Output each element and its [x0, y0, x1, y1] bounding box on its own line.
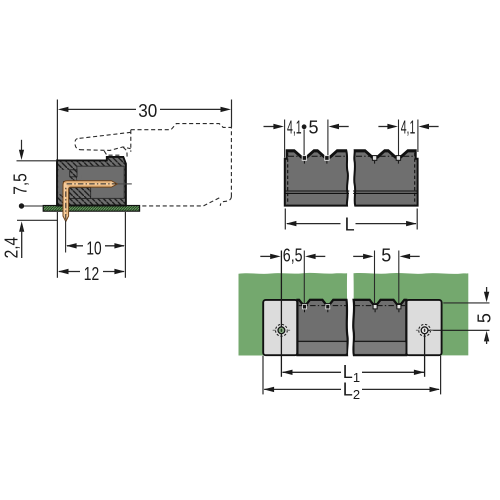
svg-text:5: 5 — [381, 245, 391, 265]
svg-text:4,1: 4,1 — [287, 118, 302, 138]
svg-text:2,4: 2,4 — [2, 237, 22, 259]
svg-text:30: 30 — [138, 101, 157, 121]
svg-text:L: L — [345, 215, 355, 235]
svg-text:4,1: 4,1 — [401, 118, 416, 138]
svg-text:6,5: 6,5 — [283, 245, 303, 265]
svg-text:5: 5 — [475, 313, 495, 323]
svg-text:12: 12 — [84, 264, 99, 284]
svg-text:10: 10 — [86, 238, 101, 258]
svg-text:7,5: 7,5 — [10, 173, 30, 195]
svg-text:5: 5 — [308, 118, 318, 138]
